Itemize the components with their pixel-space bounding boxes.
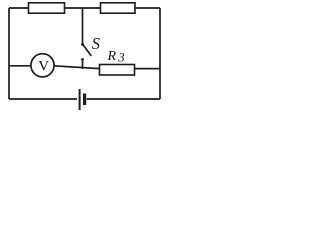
svg-text:3: 3: [117, 51, 124, 65]
svg-text:V: V: [38, 58, 49, 74]
svg-text:R: R: [107, 49, 117, 64]
svg-text:S: S: [92, 34, 100, 53]
